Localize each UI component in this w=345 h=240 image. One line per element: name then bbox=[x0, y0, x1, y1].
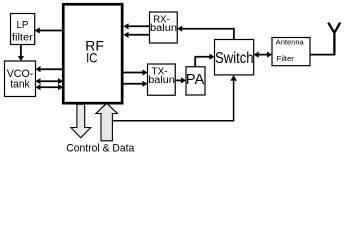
svg-text:LP: LP bbox=[17, 20, 29, 31]
svg-text:balun: balun bbox=[148, 75, 175, 86]
svg-text:Antenna: Antenna bbox=[276, 38, 305, 47]
svg-text:Control & Data: Control & Data bbox=[66, 142, 134, 154]
svg-text:tank: tank bbox=[10, 78, 30, 90]
svg-text:PA: PA bbox=[186, 72, 205, 88]
svg-text:Filter: Filter bbox=[277, 54, 295, 63]
svg-text:filter: filter bbox=[12, 32, 34, 43]
svg-text:Switch: Switch bbox=[215, 50, 254, 67]
svg-text:IC: IC bbox=[86, 50, 97, 66]
svg-text:balun: balun bbox=[150, 23, 177, 34]
